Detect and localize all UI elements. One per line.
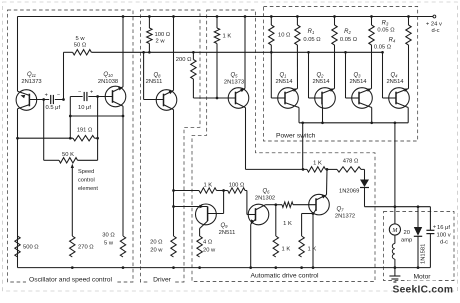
svg-text:M: M (391, 228, 398, 234)
svg-text:d-c: d-c (440, 239, 448, 245)
svg-text:Driver: Driver (153, 277, 172, 284)
svg-text:control: control (78, 178, 95, 184)
svg-text:Oscillator and speed control: Oscillator and speed control (29, 277, 112, 284)
svg-text:Automatic drive control: Automatic drive control (250, 273, 319, 280)
svg-text:2N514: 2N514 (275, 79, 293, 85)
svg-text:191 Ω: 191 Ω (77, 128, 93, 134)
svg-text:+ 24 v: + 24 v (426, 22, 442, 28)
svg-text:d-c: d-c (431, 28, 439, 34)
svg-text:Q2: Q2 (316, 72, 324, 78)
svg-text:50 K: 50 K (62, 152, 74, 158)
svg-text:R3: R3 (382, 21, 389, 27)
svg-text:2N1302: 2N1302 (255, 196, 275, 202)
svg-text:−: − (78, 90, 81, 96)
svg-text:Q1: Q1 (279, 72, 286, 78)
svg-text:10 Ω: 10 Ω (278, 33, 291, 39)
svg-text:Q9: Q9 (220, 223, 228, 229)
svg-text:2 w: 2 w (156, 39, 166, 45)
svg-text:Motor: Motor (413, 274, 431, 281)
svg-text:2N1038: 2N1038 (98, 79, 118, 85)
svg-text:20 Ω: 20 Ω (150, 240, 163, 246)
svg-text:Q5: Q5 (230, 73, 238, 79)
svg-text:Q6: Q6 (262, 189, 270, 195)
svg-text:0.5 μf: 0.5 μf (46, 105, 61, 111)
svg-text:5 w: 5 w (104, 241, 114, 247)
svg-text:270 Ω: 270 Ω (78, 245, 94, 251)
svg-text:Q3: Q3 (353, 72, 361, 78)
svg-text:Q11: Q11 (27, 72, 36, 78)
svg-text:20: 20 (404, 230, 410, 236)
svg-text:0.05 Ω: 0.05 Ω (374, 45, 392, 51)
svg-text:Speed: Speed (78, 169, 94, 175)
svg-text:100 Ω: 100 Ω (229, 183, 245, 189)
svg-text:5 w: 5 w (75, 36, 85, 42)
svg-text:200 Ω: 200 Ω (176, 57, 192, 63)
svg-text:1 K: 1 K (223, 34, 232, 40)
svg-text:2N514: 2N514 (312, 79, 330, 85)
svg-text:2N511: 2N511 (219, 230, 236, 236)
svg-text:2N514: 2N514 (349, 79, 367, 85)
svg-text:Q7: Q7 (336, 207, 344, 213)
svg-text:2N511: 2N511 (146, 79, 163, 85)
svg-text:30 Ω: 30 Ω (102, 233, 115, 239)
svg-text:1 K: 1 K (203, 183, 212, 189)
svg-text:50 Ω: 50 Ω (74, 43, 87, 49)
svg-text:Q10: Q10 (103, 72, 113, 78)
svg-text:R4: R4 (389, 38, 396, 44)
svg-text:2N1373: 2N1373 (224, 79, 244, 85)
svg-text:2N1372: 2N1372 (335, 214, 355, 220)
svg-text:+: + (45, 93, 48, 99)
svg-text:1 K: 1 K (282, 247, 291, 253)
svg-text:20 w: 20 w (150, 248, 163, 254)
svg-text:SeekIC.com: SeekIC.com (393, 285, 454, 296)
svg-text:1 K: 1 K (313, 160, 322, 166)
svg-text:+: + (90, 90, 93, 96)
svg-text:1 K: 1 K (283, 221, 292, 227)
svg-text:100 v: 100 v (437, 232, 451, 238)
svg-text:500 Ω: 500 Ω (23, 245, 39, 251)
svg-text:20 w: 20 w (203, 248, 216, 254)
svg-text:2N1373: 2N1373 (21, 79, 41, 85)
svg-text:+: + (433, 225, 436, 231)
svg-text:0.05 Ω: 0.05 Ω (303, 37, 321, 43)
svg-text:10 μf: 10 μf (78, 105, 91, 111)
svg-text:0.05 Ω: 0.05 Ω (377, 27, 395, 33)
svg-text:−: − (57, 93, 60, 99)
svg-text:4 Ω: 4 Ω (203, 240, 213, 246)
svg-text:Q8: Q8 (153, 73, 161, 79)
svg-text:1 K: 1 K (308, 247, 317, 253)
svg-text:1N1581: 1N1581 (421, 244, 427, 264)
svg-text:0.05 Ω: 0.05 Ω (340, 37, 358, 43)
svg-text:R1: R1 (308, 29, 315, 35)
svg-text:R2: R2 (344, 29, 351, 35)
svg-text:element: element (78, 186, 98, 192)
svg-text:2N514: 2N514 (386, 79, 404, 85)
svg-text:amp: amp (401, 238, 412, 244)
svg-text:Power switch: Power switch (276, 133, 316, 140)
svg-text:Q4: Q4 (390, 72, 398, 78)
svg-text:1N2069: 1N2069 (339, 188, 359, 194)
svg-text:100 Ω: 100 Ω (155, 32, 171, 38)
svg-text:478 Ω: 478 Ω (343, 158, 359, 164)
svg-text:16 μf: 16 μf (437, 225, 450, 231)
